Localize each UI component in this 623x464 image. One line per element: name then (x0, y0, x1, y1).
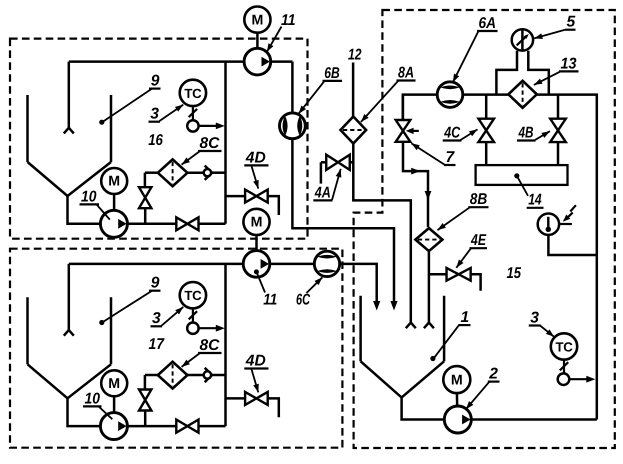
filter 8B (415, 228, 442, 251)
svg-text:5: 5 (567, 14, 576, 31)
svg-text:4D: 4D (245, 352, 266, 369)
riser line (vertical main) (224, 62, 227, 224)
filter 8C (158, 362, 188, 389)
wire: riser to valve 4D (226, 195, 246, 198)
wire: valve 4B to unit 14 (557, 142, 560, 165)
wire: filter branch left segment (145, 171, 158, 174)
wire: tank drain to pump 10 (68, 196, 101, 224)
valve 4D (245, 392, 256, 405)
adjustment zig-zag arrow (570, 205, 576, 211)
wire: tank top line to pump 11 (69, 263, 244, 266)
arrow into tank 1 from 6C line (373, 301, 380, 311)
svg-text:M: M (251, 215, 263, 231)
motor M of pump 11 (243, 209, 269, 235)
flow meter 6A (437, 82, 463, 108)
wire: filter branch corner down to bypass valve (144, 173, 147, 189)
svg-text:TC: TC (184, 288, 202, 303)
dashed boundary box 16 (10, 39, 308, 239)
svg-text:4C: 4C (443, 124, 460, 141)
wire: filter branch left segment (145, 374, 158, 377)
svg-text:14: 14 (528, 192, 542, 209)
svg-text:6C: 6C (296, 291, 311, 308)
svg-text:10: 10 (85, 390, 101, 407)
svg-text:TC: TC (184, 86, 202, 101)
svg-text:8C: 8C (200, 135, 221, 152)
wire: valve 7 outlet to filter 8B (403, 142, 428, 227)
tank 9 walls (26, 297, 29, 364)
TC signal arrow to right riser (569, 378, 587, 380)
TC signal arrow to riser (199, 125, 218, 127)
wire: pump 10 discharge line (127, 425, 225, 428)
valve 7 drop from main line (402, 95, 405, 120)
wire: valve 4E outlet stub (471, 274, 481, 291)
wire: 6B outlet down and across to tank 1 (292, 139, 394, 303)
svg-text:6A: 6A (479, 15, 497, 32)
svg-text:M: M (108, 174, 120, 190)
flow meter line from pump 11 (270, 263, 315, 266)
svg-text:M: M (108, 376, 120, 392)
bypass valve (vertical) (139, 390, 151, 401)
svg-text:2: 2 (488, 366, 498, 383)
pump 2 (444, 406, 471, 433)
tank 1 walls (359, 296, 362, 362)
wire: check valve to riser (212, 171, 226, 174)
svg-text:3: 3 (150, 106, 159, 123)
line 12 supply drop (352, 63, 355, 118)
svg-text:13: 13 (561, 55, 577, 72)
wire: motor stem to pump 11 (255, 235, 258, 251)
motor M of pump 11 (244, 7, 270, 33)
check valve (205, 368, 212, 382)
svg-text:12: 12 (348, 46, 362, 63)
svg-text:1: 1 (461, 309, 470, 326)
svg-text:8C: 8C (200, 337, 221, 354)
splash fork on 8B feed into tank 1 (424, 323, 429, 329)
flow meter 6B (280, 113, 306, 139)
wire: 6C outlet across and down to tank 1 (340, 264, 377, 303)
motor M of pump 2 (443, 366, 470, 393)
wire: filter 8C to check valve (187, 374, 203, 377)
manifold block outline with gauge stem (496, 51, 517, 95)
svg-text:8B: 8B (470, 191, 488, 208)
wire: main top line from corner to 6A (403, 95, 437, 121)
valve on pump 10 discharge (176, 217, 187, 230)
svg-text:17: 17 (149, 336, 166, 353)
filter 8C (158, 159, 188, 186)
pump 11 (243, 251, 270, 278)
pump 10 (100, 413, 127, 440)
thermo regulator instrument (538, 214, 559, 235)
wire: motor stem to pump 2 (456, 393, 459, 406)
svg-text:11: 11 (281, 12, 296, 29)
flow meter 6C (314, 251, 339, 276)
svg-text:6B: 6B (324, 65, 340, 82)
svg-text:8A: 8A (398, 65, 414, 82)
filter 8A (341, 117, 367, 144)
wire: valve 4E branch (429, 273, 447, 276)
wire: motor stem to pump 10 (113, 194, 116, 210)
pressure gauge 5 (512, 29, 533, 50)
flow arrow down into filter 8B (425, 191, 432, 200)
svg-text:3: 3 (530, 309, 539, 326)
pump 11 (244, 48, 271, 75)
wire: motor stem to pump 11 (256, 33, 259, 49)
temperature controller TC (180, 80, 206, 106)
valve 4C (478, 119, 494, 131)
svg-text:9: 9 (151, 275, 160, 292)
wire: riser to valve 4D (226, 397, 246, 400)
svg-text:TC: TC (556, 340, 574, 355)
wire: valve 4D outlet stub (268, 196, 279, 215)
TC sensor bulb small circle (187, 323, 198, 334)
valve 4E (447, 268, 459, 281)
unit 14 (heater block) (476, 165, 568, 185)
svg-text:M: M (251, 12, 263, 28)
wire: tank 1 drain to pump 2 (402, 398, 445, 420)
flow arrow on horizontal run (411, 168, 420, 175)
svg-text:4A: 4A (314, 184, 331, 201)
tank 9 feed pipe with splash fork (68, 264, 71, 330)
wire: tank top line to pump 11 (69, 60, 244, 63)
dashed boundary box 17 (10, 249, 342, 448)
wire: filter 8C to check valve (187, 171, 203, 174)
splash fork on 8A feed into tank 1 (406, 323, 411, 329)
svg-text:15: 15 (507, 265, 522, 282)
wire: bypass valve to discharge line (144, 410, 147, 427)
svg-text:9: 9 (151, 73, 160, 90)
wire: motor stem to pump 10 (113, 396, 116, 412)
TC sensor bulb small circle (187, 120, 198, 131)
valve 4D (245, 190, 256, 203)
wire: filter 13 to top right corner, down right side (537, 95, 597, 420)
svg-text:10: 10 (81, 188, 97, 205)
svg-text:4E: 4E (470, 232, 486, 249)
wire: valve 4D outlet stub (268, 398, 279, 417)
riser line (vertical main) (224, 264, 227, 426)
svg-text:M: M (451, 372, 463, 388)
wire: 8B outlet into tank 1 (428, 251, 431, 323)
svg-text:3: 3 (152, 310, 161, 327)
tank 9 walls (26, 95, 29, 162)
wire: instrument to right riser (548, 235, 596, 255)
motor M of pump 10 (101, 370, 127, 396)
TC sensor bulb small circle (558, 373, 570, 385)
wire: valve 4C to unit 14 (485, 142, 488, 165)
valve 7 (396, 120, 411, 131)
bypass valve (vertical) (139, 187, 151, 198)
wire: filter branch corner down to bypass valve (144, 375, 147, 391)
filter 13 (508, 81, 536, 108)
wire: 6A to filter 13 (463, 93, 509, 96)
wire: drop to valve 4C (485, 95, 488, 119)
wire: bypass valve to discharge line (144, 207, 147, 224)
temperature controller TC of tank 1 (551, 333, 577, 359)
flow meter line from pump 11 (271, 60, 293, 63)
wire: pump 2 discharge to right riser (471, 418, 597, 421)
wire: 8A outlet down, across, down to tank 1 (353, 144, 411, 323)
wire: tank drain to pump 10 (68, 398, 101, 426)
TC signal arrow to riser (199, 327, 218, 329)
flow arrow into valve 7 (411, 130, 419, 132)
wire: check valve to riser (212, 374, 226, 377)
pump 10 (100, 210, 127, 237)
tank 9 feed pipe with splash fork (68, 62, 71, 128)
wire: valve 4A branch (350, 161, 354, 164)
valve on pump 10 discharge (176, 420, 187, 433)
svg-text:4D: 4D (245, 149, 266, 166)
valve 4B (550, 119, 566, 131)
svg-text:16: 16 (148, 132, 163, 149)
wire: pump 10 discharge line (127, 223, 225, 226)
valve 4A (326, 155, 338, 170)
arrow into tank 1 from 6B line (390, 301, 397, 311)
temperature controller TC (180, 282, 206, 308)
svg-text:7: 7 (446, 149, 456, 166)
svg-text:11: 11 (263, 291, 277, 308)
dashed boundary box 15 (354, 10, 615, 448)
check valve (205, 166, 212, 180)
wire: drop to valve 4B (557, 95, 560, 119)
svg-text:4B: 4B (518, 124, 534, 141)
motor M of pump 10 (101, 168, 127, 194)
